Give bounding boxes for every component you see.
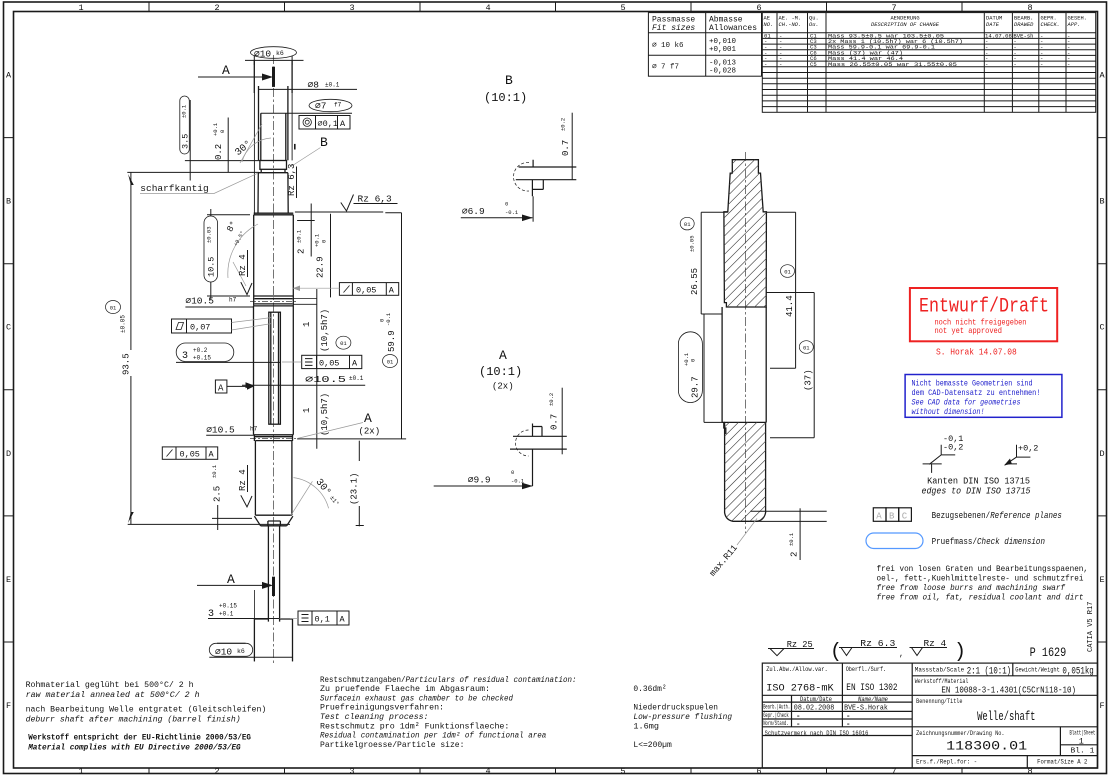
svg-text:L<=200µm: L<=200µm [633,740,671,750]
svg-text:0.36dm²: 0.36dm² [633,684,666,694]
svg-text:01: 01 [340,340,347,347]
svg-text:k6: k6 [276,50,284,57]
big extension rect: top line and right line [295,212,406,449]
svg-text:(: ( [830,641,842,664]
svg-text:8: 8 [1027,3,1032,13]
d8 section [259,86,288,160]
svg-text:⌀6.9: ⌀6.9 [462,206,485,217]
centerline [272,55,274,665]
svg-text:-0,013: -0,013 [709,60,737,68]
svg-text:Rz 6.3: Rz 6.3 [860,638,895,649]
svg-text:±0.03: ±0.03 [206,226,213,243]
0,05 A frame right [293,283,399,296]
svg-text:Qu.: Qu. [809,16,819,22]
svg-text:41.4: 41.4 [785,295,795,317]
svg-text:(2x): (2x) [359,427,381,437]
svg-text:+0,010: +0,010 [709,38,737,46]
svg-text:2: 2 [214,767,219,777]
svg-text:A: A [352,358,358,368]
26.55 dim [680,212,728,314]
svg-text:⌀7: ⌀7 [315,101,326,112]
svg-text:f7: f7 [334,102,342,109]
svg-text:Rz 4: Rz 4 [238,254,248,276]
svg-text:): ) [954,641,966,664]
svg-text:(10,5h7): (10,5h7) [320,309,330,352]
svg-text:Bearb.|Auth.: Bearb.|Auth. [763,704,790,711]
svg-text:+0,001: +0,001 [709,46,737,54]
svg-text:Rz 6,3: Rz 6,3 [287,164,297,196]
svg-text:DRAWED: DRAWED [1014,22,1034,28]
0,07 frame [172,318,273,334]
svg-text:Ou.: Ou. [809,22,819,28]
(10,5h7) upper + 1 [302,309,351,352]
svg-text:free from oil, fat, residual c: free from oil, fat, residual coolant and… [877,593,1084,603]
svg-text:Norm/Stand.: Norm/Stand. [763,720,789,727]
svg-text:⌀ 7 f7: ⌀ 7 f7 [652,64,679,72]
svg-text:+0.2: +0.2 [193,347,208,354]
svg-text:Partikelgroesse/Particle size:: Partikelgroesse/Particle size: [320,740,464,750]
neck rings [254,435,294,441]
svg-text:01: 01 [387,359,394,366]
svg-text:4: 4 [485,3,490,13]
svg-text:-: - [1040,61,1043,68]
REVISION TABLE [762,13,1095,113]
svg-text:A: A [1099,71,1105,81]
svg-text:C: C [6,323,11,333]
svg-text:(10,5h7): (10,5h7) [320,393,330,436]
svg-text:CH.-NO.: CH.-NO. [779,22,802,28]
svg-text:±0.2: ±0.2 [548,393,555,406]
svg-text:Pruefmass/: Pruefmass/ [932,537,977,547]
svg-text:1: 1 [78,767,83,777]
svg-text:(2x): (2x) [492,382,514,392]
TITLE BLOCK [762,663,1097,768]
svg-text:±0.05: ±0.05 [689,235,696,252]
NOTES RIGHT [768,434,1088,664]
inner slot [269,312,281,424]
svg-text:2: 2 [214,3,219,13]
svg-text:⌀10: ⌀10 [215,647,232,658]
svg-text:-0,028: -0,028 [709,68,736,76]
svg-text:01: 01 [784,269,791,276]
svg-text:0,07: 0,07 [190,323,210,333]
svg-text:-: - [779,61,782,68]
thin end section [268,526,279,622]
svg-text:Rohmaterial geglüht bei 500°C/: Rohmaterial geglüht bei 500°C/ 2 h [26,680,194,690]
dashed mid line in neck [250,438,296,440]
svg-text:without dimension!: without dimension! [912,407,985,417]
svg-text:⌀ 10 k6: ⌀ 10 k6 [652,42,684,50]
svg-text:D: D [1099,449,1104,459]
svg-text:Oberfl./Surf.: Oberfl./Surf. [846,666,887,674]
svg-text:0,05: 0,05 [319,358,339,368]
svg-text:1: 1 [302,322,312,327]
svg-text:-: - [1067,61,1070,68]
svg-text:h7: h7 [250,426,258,433]
3 +0.2 stadium [176,343,281,362]
svg-text:APP.: APP. [1067,22,1081,28]
svg-text:5: 5 [620,3,625,13]
svg-text:CATIA V5 R17: CATIA V5 R17 [1087,602,1095,652]
svg-text:Entwurf/Draft: Entwurf/Draft [919,296,1049,319]
svg-text:BEARB.: BEARB. [1014,16,1033,22]
svg-text:2: 2 [790,552,800,557]
taper section Rz4 [258,173,288,214]
zone letters left [6,71,12,712]
svg-text:01: 01 [110,305,117,312]
svg-text:B: B [6,197,11,207]
svg-text:6: 6 [756,3,761,13]
svg-text:118300.01: 118300.01 [946,740,1027,754]
svg-text:0: 0 [690,359,697,362]
Rz4 lower [238,465,252,507]
svg-text:0,051kg: 0,051kg [1062,665,1093,677]
Rz 6,3 with check top right [341,194,398,212]
svg-text:Datum/Date: Datum/Date [800,696,832,703]
0,05 A flatness frame left [162,447,217,460]
geometry [516,430,529,456]
svg-text:C: C [1099,323,1104,333]
svg-text:DESCRIPTION OF CHANGE: DESCRIPTION OF CHANGE [871,22,940,28]
geometry [514,162,529,191]
svg-text:+0.15: +0.15 [219,603,237,610]
svg-text:Blatt|Sheet: Blatt|Sheet [1070,729,1096,736]
centerline [744,152,746,533]
svg-text:0,05: 0,05 [356,285,376,295]
svg-text:P 1629: P 1629 [1030,646,1067,660]
svg-text:-: - [764,61,767,68]
svg-text:+0.15: +0.15 [193,355,211,362]
equality frame bottom [280,611,349,625]
svg-text:A: A [227,572,235,587]
svg-text:F: F [6,701,11,711]
svg-text:Reference planes: Reference planes [990,511,1062,521]
svg-text:E: E [6,575,11,585]
d10.5h7 label lower [206,425,257,436]
svg-text:B: B [505,73,513,88]
svg-text:+0.1: +0.1 [212,122,219,136]
svg-text:5: 5 [620,767,625,777]
svg-text:+0,2: +0,2 [1018,444,1038,454]
red draft stamp [910,288,1057,358]
29.7 dim [678,314,722,422]
A (2x) detail label [297,411,380,439]
max R11 [708,519,757,579]
svg-text:0,05: 0,05 [180,450,200,460]
svg-text:noch nicht freigegeben: noch nicht freigegeben [935,318,1027,328]
svg-text:2: 2 [297,249,307,254]
svg-text:NO.: NO. [764,22,774,28]
svg-text:Name/Name: Name/Name [858,696,888,703]
shaft outline top d10k6 [254,60,317,661]
svg-text:4: 4 [485,767,490,777]
svg-text:GEPR.: GEPR. [1041,16,1057,22]
svg-text:Gewicht/Weight: Gewicht/Weight [1015,667,1060,675]
svg-text:Rz 6,3: Rz 6,3 [358,194,393,205]
svg-text:Kanten DIN ISO 13715: Kanten DIN ISO 13715 [927,477,1030,487]
svg-text:⌀10.5: ⌀10.5 [185,296,214,307]
d6.9 dim [532,196,534,221]
svg-text:⌀9.9: ⌀9.9 [468,475,491,486]
SECTION VIEW [678,0,870,691]
svg-text:not yet approved: not yet approved [935,326,1003,336]
svg-text:±0.1: ±0.1 [349,375,364,382]
scharfkantig [140,173,258,194]
svg-text:-0.1: -0.1 [511,478,525,485]
blue note box [905,375,1062,418]
svg-text:29.7: 29.7 [691,376,701,398]
d10.5h7 label upper [185,296,254,308]
shoulder [254,213,294,215]
svg-text:A: A [499,348,507,363]
svg-text:AE. -M.: AE. -M. [779,16,802,22]
outline [722,160,766,522]
0.2 dim [212,118,228,173]
22.9 dim [314,214,331,298]
svg-text:BVE-S.Horak: BVE-S.Horak [844,705,888,713]
concentricity frame [299,116,350,130]
svg-text:+0.1: +0.1 [314,233,321,247]
3 +0.15 bottom dim [208,590,293,661]
d9.9 dim [434,485,533,487]
d10.5 upper section [254,215,294,296]
svg-text:0,1: 0,1 [315,615,330,625]
(10,5h7) lower + 1 [302,393,330,436]
svg-text:±0.1: ±0.1 [788,532,795,546]
svg-text:-0,2: -0,2 [943,443,963,453]
svg-text:C: C [902,511,908,521]
svg-text:1: 1 [78,3,83,13]
svg-text:93.5: 93.5 [122,353,132,375]
svg-text:±0.1: ±0.1 [181,104,188,118]
svg-text:Rz 25: Rz 25 [787,639,813,650]
svg-text:Mass 26.55±0.05 war 31.55±0.05: Mass 26.55±0.05 war 31.55±0.05 [828,61,957,68]
svg-text:ISO 2768-mK: ISO 2768-mK [766,683,834,695]
svg-text:Werkstoff entspricht der EU-Ri: Werkstoff entspricht der EU-Richtlinie 2… [28,733,251,743]
svg-text:,: , [899,650,904,659]
svg-text:Nicht bemasste Geometrien sind: Nicht bemasste Geometrien sind [912,379,1033,389]
svg-text:-0.1: -0.1 [385,312,392,326]
d10.5h7 long section [254,306,294,435]
svg-text:0: 0 [219,130,226,133]
blue check stadium [866,533,923,549]
svg-text:±0.1: ±0.1 [325,82,340,89]
svg-text:CHECK.: CHECK. [1041,22,1060,28]
svg-text:7: 7 [891,3,896,13]
svg-text:Fit sizes: Fit sizes [652,24,695,33]
svg-text:Gepr.|Check: Gepr.|Check [763,712,789,719]
2 +-0.1 bottom dim [750,508,826,560]
41.4 dim [766,212,795,368]
d7f7 section [261,113,286,160]
svg-text:A: A [876,511,882,521]
svg-text:Zul.Abw./Allow.var.: Zul.Abw./Allow.var. [766,666,828,674]
svg-text:oel-, fett-,Kuehlmittelreste-: oel-, fett-,Kuehlmittelreste- und schmut… [877,574,1084,584]
svg-text:B: B [1099,197,1104,207]
section cut A top [198,63,274,87]
free from text [877,564,1089,603]
DETAIL B [461,73,577,222]
svg-text:A: A [340,119,346,129]
svg-text:⌀8: ⌀8 [308,80,320,91]
svg-text:-: - [985,61,988,68]
d7f7 dim [261,112,352,114]
svg-text:6: 6 [756,767,761,777]
svg-text:3: 3 [182,351,188,362]
(23.1) dim [350,441,364,527]
ABC reference boxes [873,508,911,522]
2.5 dim [211,464,252,530]
svg-text:F: F [1099,701,1104,711]
A datum box [215,380,254,394]
edge symbol left [923,434,964,473]
svg-text:A: A [218,384,224,394]
svg-text:±0.2: ±0.2 [560,118,567,131]
svg-text:Format/Size A 2: Format/Size A 2 [1037,759,1087,767]
svg-text:-: - [796,721,801,729]
svg-text:0: 0 [505,201,508,208]
svg-text:-0.1: -0.1 [505,209,519,216]
svg-text:B: B [889,511,895,521]
svg-text:Rz 4: Rz 4 [924,638,947,649]
FRONT VIEW [106,47,407,665]
svg-text:-: - [846,713,851,721]
93.5 dim [106,172,291,524]
svg-text:59.9: 59.9 [387,330,397,352]
svg-text:0.2: 0.2 [214,144,224,160]
svg-text:0: 0 [511,469,514,476]
svg-text:Massstab/Scale: Massstab/Scale [915,667,964,675]
svg-text:B: B [320,135,328,150]
59.9 dim [379,312,398,367]
svg-text:DATE: DATE [986,22,1000,28]
svg-text:⌀10: ⌀10 [254,49,271,60]
bottom d10k6 [209,643,292,657]
svg-text:Bezugsebenen/: Bezugsebenen/ [932,511,991,521]
svg-text:dem CAD-Datensatz zu entnehme: dem CAD-Datensatz zu entnehmen! [912,388,1041,398]
svg-text:(37): (37) [804,369,814,391]
svg-text:(23.1): (23.1) [350,473,360,505]
(37) dim [766,293,814,438]
PASSMASSE TABLE [648,13,761,77]
zone numbers top [78,3,1032,13]
svg-text:GESEH.: GESEH. [1068,16,1087,22]
svg-text:A: A [340,615,346,625]
2 +-0.1 [296,204,315,257]
svg-text:k6: k6 [237,648,245,655]
svg-text:h7: h7 [229,297,237,304]
svg-text:Ers.f./Repl.for: -: Ers.f./Repl.for: - [916,759,977,767]
svg-text:S. Horak 14.07.08: S. Horak 14.07.08 [936,348,1017,358]
svg-text:free from loose burrs and mach: free from loose burrs and machining swar… [877,583,1066,593]
svg-text:raw material annealed at 500°C: raw material annealed at 500°C/ 2 h [26,690,200,700]
svg-text:AE: AE [764,16,770,22]
left dims: 3.5 stadium [180,96,260,181]
bottom flange d10k6 [254,619,292,661]
STAMPS [905,288,1062,417]
svg-text:-: - [796,713,801,721]
svg-text:0: 0 [321,240,328,243]
svg-text:3: 3 [349,3,354,13]
svg-text:Material complies with EU Dire: Material complies with EU Directive 2000… [27,743,241,753]
svg-text:1: 1 [302,408,312,413]
zone numbers bottom [78,767,1032,777]
svg-text:26.55: 26.55 [690,268,700,295]
svg-text:2.5: 2.5 [213,486,223,502]
section cut A bottom [197,572,274,596]
Rz symbols row [768,638,1066,664]
svg-text:Allowances: Allowances [709,24,757,33]
hatching [700,0,870,472]
svg-text:nach Bearbeitung Welle entgrat: nach Bearbeitung Welle entgratet (Gleits… [26,705,267,715]
svg-text:⌀10.5: ⌀10.5 [206,425,235,436]
svg-text:3.5: 3.5 [181,134,191,149]
edge symbol right [1004,444,1038,466]
d8 lower section [255,441,292,516]
svg-text:Zeichnungsnummer/Drawing No.: Zeichnungsnummer/Drawing No. [916,730,1005,738]
zone letters right [1099,71,1105,712]
svg-text:±0.1: ±0.1 [296,229,303,243]
label d10k6 top [251,47,297,60]
svg-text:0.7: 0.7 [550,414,560,430]
svg-text:EN ISO 1302: EN ISO 1302 [846,682,897,694]
svg-text:scharfkantig: scharfkantig [140,183,208,194]
svg-text:E: E [1099,575,1104,585]
svg-text:AENDERUNG: AENDERUNG [890,16,919,22]
svg-text:A: A [222,63,230,78]
svg-text:frei von losen Graten und Bear: frei von losen Graten und Bearbeitungssp… [877,564,1089,574]
svg-text:Welle/shaft: Welle/shaft [977,709,1035,724]
svg-text:01: 01 [803,345,810,352]
svg-text:Schutzvermerk nach DIN ISO 160: Schutzvermerk nach DIN ISO 16016 [765,730,869,738]
svg-text:10.5: 10.5 [207,257,217,277]
svg-text:±0.1: ±0.1 [211,464,218,478]
svg-text:⌀0,1: ⌀0,1 [318,119,338,129]
equality frame mid [282,355,362,368]
svg-text:08.02.2008: 08.02.2008 [794,705,835,713]
svg-text:A: A [364,411,372,426]
svg-text:Rz 4: Rz 4 [238,469,248,491]
svg-text:14.07.08: 14.07.08 [985,32,1012,39]
chamfer to thin end [254,516,293,526]
BOTTOM TEXT [26,675,733,753]
top d10k6 dim [245,56,304,65]
svg-text:±0.05: ±0.05 [120,315,127,333]
svg-text:(10:1): (10:1) [479,365,522,379]
svg-text:deburr shaft after machining (: deburr shaft after machining (barrel fin… [26,715,241,725]
svg-text:A: A [6,71,12,81]
svg-text:EN 10088-3-1.4301(C5CrNi18-10): EN 10088-3-1.4301(C5CrNi18-10) [941,684,1076,695]
svg-text:22.9: 22.9 [316,256,326,278]
svg-text:-: - [1013,61,1016,68]
svg-text:Bl. 1: Bl. 1 [1071,748,1095,756]
svg-text:3: 3 [349,767,354,777]
svg-text:⌀10.5: ⌀10.5 [305,374,346,385]
10.5 +-0.03 stadium [204,209,250,300]
svg-text:D: D [6,449,11,459]
Rz4 upper [238,250,252,295]
svg-text:A: A [209,450,215,460]
d8 dim [259,88,358,90]
svg-text:A: A [389,285,395,295]
svg-text:-: - [846,721,851,729]
svg-text:Benennung/Title: Benennung/Title [916,698,962,706]
svg-text:Check dimension: Check dimension [977,537,1045,547]
svg-text:0.7: 0.7 [561,140,571,156]
svg-text:(10:1): (10:1) [484,91,527,105]
svg-text:2:1 (10:1): 2:1 (10:1) [967,666,1011,678]
svg-text:See CAD data for geometries: See CAD data for geometries [912,398,1021,408]
